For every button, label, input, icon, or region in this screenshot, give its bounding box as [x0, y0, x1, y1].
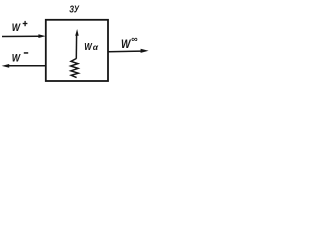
svg-text:ЗУ: ЗУ [69, 4, 79, 15]
svg-text:α: α [93, 42, 99, 52]
svg-text:∞: ∞ [131, 34, 138, 44]
svg-text:W: W [12, 22, 22, 34]
svg-text:W: W [121, 38, 132, 51]
svg-text:W: W [12, 53, 22, 65]
